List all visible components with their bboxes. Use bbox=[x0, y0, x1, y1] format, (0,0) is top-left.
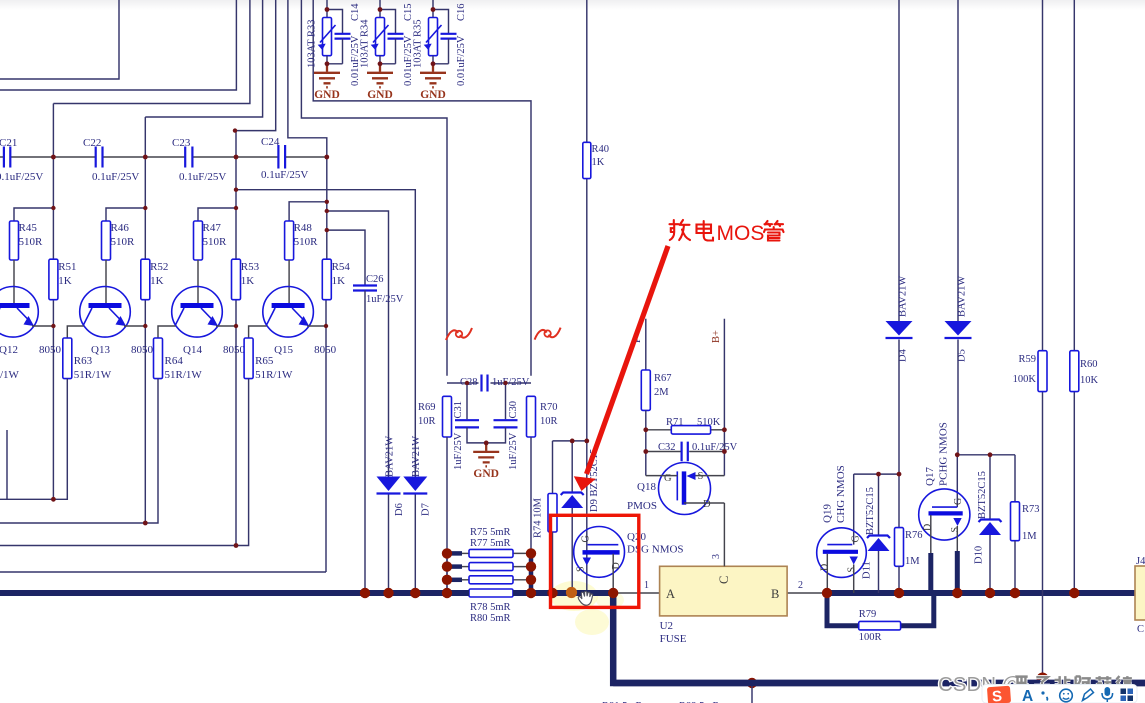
wire R34 cell bottom bbox=[380, 56, 396, 64]
resistor R51 1K bbox=[49, 259, 58, 300]
svg-text:1uF/25V: 1uF/25V bbox=[366, 294, 404, 305]
wire D6 vertical lower bbox=[388, 493, 390, 593]
svg-text:PCHG NMOS: PCHG NMOS bbox=[938, 422, 950, 486]
resistor R73 1M bbox=[1014, 455, 1016, 502]
wire R74 bottom bbox=[552, 532, 554, 593]
wire R35 cell bottom bbox=[433, 56, 449, 64]
wire Q17 gate node bbox=[957, 454, 1015, 456]
svg-text:C23: C23 bbox=[172, 137, 191, 149]
wire R35 cell top bbox=[433, 0, 449, 34]
svg-text:1K: 1K bbox=[592, 157, 605, 168]
svg-text:51R/1W: 51R/1W bbox=[74, 369, 112, 381]
wire fuse pin1 bbox=[613, 592, 659, 594]
resistor R67 2M bbox=[641, 370, 650, 410]
wire C31 hang bbox=[466, 383, 468, 419]
svg-text:D6: D6 bbox=[394, 503, 405, 516]
svg-text:1K: 1K bbox=[241, 275, 255, 287]
resistor R63 51R/1W bbox=[63, 338, 72, 379]
wire Q17 drain thick bbox=[930, 515, 932, 553]
svg-text:S: S bbox=[950, 527, 961, 533]
wire Q15 collector stub bbox=[249, 326, 267, 338]
svg-text:Q18: Q18 bbox=[637, 481, 656, 493]
bus B- main horizontal bbox=[0, 590, 469, 596]
svg-text:103AT R34: 103AT R34 bbox=[360, 19, 371, 68]
wire B+ net bbox=[723, 319, 725, 476]
ground GND under R34 bbox=[379, 64, 381, 72]
wire Q14 collector stub bbox=[158, 326, 176, 338]
wire fuse pin2 bbox=[787, 592, 827, 594]
svg-text:R52: R52 bbox=[150, 261, 168, 273]
diode D4 BAV21W bbox=[886, 321, 913, 336]
capacitor C30 1uF/25V bbox=[494, 420, 518, 427]
wire D4 to Q19 gate node bbox=[898, 340, 900, 475]
diode D11 BZT52C15 zener bbox=[878, 474, 880, 536]
svg-text:R65: R65 bbox=[255, 355, 274, 367]
svg-text:Q12: Q12 bbox=[0, 344, 18, 356]
svg-text:BZT52C15: BZT52C15 bbox=[865, 487, 876, 535]
svg-text:/1W: /1W bbox=[0, 369, 20, 381]
svg-text:100R: 100R bbox=[859, 632, 882, 643]
svg-text:C21: C21 bbox=[0, 137, 17, 149]
svg-text:R47: R47 bbox=[203, 222, 222, 234]
svg-text:R80 5mR: R80 5mR bbox=[470, 613, 511, 624]
wire Q19 source bbox=[853, 565, 855, 594]
svg-text:U2: U2 bbox=[660, 620, 673, 632]
wire Q20 source net bbox=[586, 441, 588, 593]
svg-text:1K: 1K bbox=[332, 275, 346, 287]
highlight glow near cursor bbox=[550, 581, 598, 611]
junction dots sense block bbox=[442, 548, 452, 558]
capacitor C14 0.01uF/25V bbox=[335, 34, 351, 39]
svg-text:510K: 510K bbox=[697, 417, 721, 428]
red annotation callout line and arrow bbox=[587, 246, 669, 474]
svg-text:GND: GND bbox=[473, 468, 499, 480]
svg-text:10R: 10R bbox=[418, 416, 436, 427]
svg-text:C31: C31 bbox=[453, 401, 464, 419]
svg-text:R59: R59 bbox=[1018, 354, 1036, 365]
svg-text:R71: R71 bbox=[666, 417, 684, 428]
junction dots R34 cell bbox=[378, 7, 383, 12]
wire drop below bottom bus bbox=[751, 686, 753, 703]
wire stair L6 to cell4 chain bbox=[288, 0, 327, 157]
capacitor C22 bbox=[96, 147, 103, 168]
resistor R54 1K bbox=[322, 259, 331, 300]
svg-text:A: A bbox=[1022, 688, 1033, 703]
capacitor C16 0.01uF/25V bbox=[441, 34, 457, 39]
wire R71 row bbox=[646, 429, 672, 431]
wire sense right riser bus bbox=[529, 553, 534, 593]
svg-text:8050: 8050 bbox=[39, 344, 62, 356]
ground GND under R35 bbox=[432, 64, 434, 72]
wire D5 net vertical bbox=[957, 0, 959, 321]
svg-text:GND: GND bbox=[420, 89, 446, 101]
svg-text:C22: C22 bbox=[83, 137, 101, 149]
transistor Q12 8050 bbox=[0, 287, 38, 338]
resistor R69 10R bbox=[443, 396, 452, 437]
svg-text:0.1uF/25V: 0.1uF/25V bbox=[0, 171, 43, 183]
sense resistor row 2 5mR bbox=[447, 564, 462, 569]
diode D10 BZT52C15 zener bbox=[989, 455, 991, 520]
connector J1 right edge bbox=[1135, 566, 1145, 620]
resistor R52 1K bbox=[141, 259, 150, 300]
svg-text:R70: R70 bbox=[540, 402, 558, 413]
ground GND under R33 bbox=[326, 64, 328, 72]
svg-text:3: 3 bbox=[711, 554, 722, 559]
svg-text:GND: GND bbox=[314, 89, 340, 101]
wire capacitor row bbox=[0, 156, 4, 158]
wire chain cell1 vertical bbox=[52, 104, 54, 260]
svg-text:D10: D10 bbox=[974, 546, 985, 564]
transistor Q18 PMOS bbox=[659, 463, 711, 515]
wire thermistor block border-bottom to R70 bbox=[313, 0, 531, 376]
resistor R40 1K bbox=[583, 142, 591, 178]
junction dots gate nodes bbox=[876, 472, 881, 477]
svg-text:1uF/25V: 1uF/25V bbox=[453, 432, 464, 470]
svg-text:G: G bbox=[664, 473, 672, 484]
svg-text:R73: R73 bbox=[1022, 504, 1040, 515]
wire R33 cell bottom bbox=[327, 56, 343, 64]
wire C32 row bbox=[646, 451, 682, 453]
svg-text:BAV21W: BAV21W bbox=[957, 276, 968, 317]
resistor R60 10K bbox=[1070, 351, 1079, 392]
svg-text:D: D bbox=[820, 564, 831, 571]
wire emitter return L3 bbox=[0, 379, 249, 546]
diode D7 BAV21W bbox=[403, 477, 427, 492]
wire chain cell3 vertical bbox=[235, 131, 237, 260]
thermistor R35 103AT bbox=[429, 18, 438, 56]
svg-text:R46: R46 bbox=[111, 222, 130, 234]
wire stair L2 bbox=[0, 0, 236, 90]
svg-text:1uF/25V: 1uF/25V bbox=[492, 377, 530, 388]
svg-text:1M: 1M bbox=[905, 556, 920, 567]
wire R47 to Q14 base bbox=[197, 260, 199, 304]
svg-text:S: S bbox=[698, 471, 704, 482]
svg-text:R63: R63 bbox=[74, 355, 93, 367]
transistor Q13 8050 bbox=[80, 287, 131, 338]
wire tie R45 top bbox=[14, 208, 53, 221]
junction dots main bus bbox=[360, 588, 370, 598]
wire D7 feed bbox=[236, 190, 415, 477]
svg-text:R60: R60 bbox=[1080, 359, 1098, 370]
svg-text:1uF/25V: 1uF/25V bbox=[508, 432, 519, 470]
wire R33 cell top bbox=[327, 0, 343, 34]
svg-text:Q19: Q19 bbox=[822, 504, 834, 523]
junction dots R33 cell bbox=[325, 7, 330, 12]
svg-text:0.01uF/25V: 0.01uF/25V bbox=[456, 35, 467, 86]
capacitor C15 0.01uF/25V bbox=[388, 34, 404, 39]
bus right section bbox=[827, 590, 1135, 596]
svg-text:Q20: Q20 bbox=[627, 531, 646, 543]
svg-text:R76: R76 bbox=[905, 530, 923, 541]
svg-text:J4: J4 bbox=[1136, 556, 1145, 567]
wire C26 feed bbox=[327, 230, 365, 285]
wire Q13 collector stub bbox=[67, 326, 83, 338]
svg-text:R54: R54 bbox=[332, 261, 351, 273]
watermark toolbar bbox=[982, 685, 1137, 703]
svg-text:510R: 510R bbox=[203, 236, 228, 248]
thermistor R33 103AT bbox=[323, 18, 332, 56]
svg-text:Q14: Q14 bbox=[183, 344, 202, 356]
red highlight rectangle around Q20 bbox=[551, 515, 639, 607]
wire tie R47 top bbox=[198, 208, 236, 221]
svg-text:R45: R45 bbox=[19, 222, 38, 234]
svg-text:R53: R53 bbox=[241, 261, 260, 273]
sense resistor row 3 5mR bbox=[447, 578, 462, 583]
wire Q15 emitter stub bbox=[307, 325, 327, 327]
wire R60 net vertical bbox=[1073, 0, 1075, 351]
svg-text:0.1uF/25V: 0.1uF/25V bbox=[692, 442, 738, 453]
sense resistor row 1 5mR bbox=[447, 551, 462, 556]
wire tie R48 top bbox=[289, 202, 327, 221]
svg-text:R74 10M: R74 10M bbox=[533, 497, 544, 538]
svg-text:C15: C15 bbox=[403, 3, 414, 21]
svg-text:10K: 10K bbox=[1080, 375, 1099, 386]
wire R59 net vertical bbox=[1042, 0, 1044, 351]
wire R40 net vertical bbox=[586, 0, 588, 142]
diode D9 BZT52C15 zener bbox=[561, 493, 584, 496]
wire R46 to Q13 base bbox=[105, 260, 107, 304]
wire Q19 drain bbox=[826, 554, 828, 593]
wire stair L7 to R69 bbox=[301, 0, 447, 376]
svg-text:BZT52C15: BZT52C15 bbox=[977, 471, 988, 519]
wire Q18 drain to fuse bbox=[684, 502, 724, 504]
svg-text:2: 2 bbox=[798, 580, 803, 591]
svg-text:8050: 8050 bbox=[131, 344, 154, 356]
resistor R65 51R/1W bbox=[244, 338, 253, 379]
svg-text:C: C bbox=[1137, 624, 1144, 635]
wire Q13 emitter stub bbox=[124, 325, 145, 327]
svg-text:R51: R51 bbox=[58, 261, 76, 273]
no-ERC marker right bbox=[535, 328, 561, 340]
wire stair L3 bbox=[53, 0, 250, 104]
svg-text:2M: 2M bbox=[654, 387, 669, 398]
svg-text:103AT R35: 103AT R35 bbox=[413, 19, 424, 68]
red annotation text fang-dian MOS guan bbox=[670, 220, 714, 241]
resistor R45 510R bbox=[10, 221, 19, 260]
sense resistor row 4 5mR bbox=[469, 589, 513, 597]
svg-text:C26: C26 bbox=[366, 274, 384, 285]
svg-text:BAV21W: BAV21W bbox=[898, 276, 909, 317]
svg-text:C: C bbox=[717, 576, 731, 584]
svg-text:R79: R79 bbox=[859, 609, 877, 620]
svg-text:C30: C30 bbox=[508, 401, 519, 419]
transistor Q20 DSG NMOS bbox=[574, 527, 625, 578]
wire Q19 gate node bbox=[854, 473, 899, 475]
transistor Q14 8050 bbox=[172, 287, 223, 338]
capacitor C24 bbox=[278, 145, 285, 169]
diode D5 BAV21W bbox=[945, 321, 972, 336]
svg-text:R75 5mR: R75 5mR bbox=[470, 527, 511, 538]
svg-text:510R: 510R bbox=[294, 236, 319, 248]
wire P+ net bbox=[645, 319, 647, 370]
wire C26 bottom bbox=[364, 291, 366, 594]
svg-text:S: S bbox=[576, 566, 587, 572]
wire Q18 gate bbox=[646, 475, 678, 477]
svg-text:8050: 8050 bbox=[223, 344, 246, 356]
svg-text:0.1uF/25V: 0.1uF/25V bbox=[261, 169, 308, 181]
resistor R47 510R bbox=[194, 221, 203, 260]
svg-text:S: S bbox=[847, 567, 858, 573]
component U2 FUSE bbox=[660, 566, 788, 616]
thermistor R34 103AT bbox=[376, 18, 385, 56]
svg-text:CHG NMOS: CHG NMOS bbox=[835, 465, 847, 523]
svg-text:Q13: Q13 bbox=[91, 344, 110, 356]
wire chain cell4 vertical bbox=[326, 157, 328, 259]
svg-text:C24: C24 bbox=[261, 136, 280, 148]
diode D6 BAV21W bbox=[377, 477, 401, 492]
resistor R79 100R bbox=[859, 621, 901, 630]
resistor R70 10R bbox=[527, 396, 536, 437]
capacitor C31 1uF/25V bbox=[455, 420, 479, 427]
wire Q12 emitter stub bbox=[32, 325, 53, 327]
wire R70 bottom to sense bbox=[530, 437, 532, 553]
svg-text:DSG NMOS: DSG NMOS bbox=[627, 544, 684, 556]
resistor R76 1M bbox=[898, 474, 900, 527]
junction dots cap row and chains bbox=[51, 155, 56, 160]
wire emitter return L2 bbox=[0, 379, 158, 523]
svg-text:PMOS: PMOS bbox=[627, 500, 657, 512]
resistor R64 51R/1W bbox=[154, 338, 163, 379]
svg-text:D: D bbox=[923, 524, 934, 531]
svg-text:1K: 1K bbox=[58, 275, 71, 287]
svg-text:A: A bbox=[666, 587, 675, 601]
svg-text:510R: 510R bbox=[19, 236, 44, 248]
svg-text:R67: R67 bbox=[654, 373, 672, 384]
svg-text:Q17: Q17 bbox=[924, 467, 936, 486]
svg-text:8050: 8050 bbox=[314, 344, 337, 356]
mouse hand cursor bbox=[578, 591, 593, 605]
svg-text:C14: C14 bbox=[350, 3, 361, 21]
svg-text:51R/1W: 51R/1W bbox=[165, 369, 203, 381]
capacitor C21 bbox=[4, 147, 10, 168]
wire stair L1 top-left bbox=[0, 0, 119, 79]
svg-text:R48: R48 bbox=[294, 222, 313, 234]
wire fuse pin3 bbox=[723, 503, 725, 566]
bus corner down bbox=[613, 590, 1145, 683]
svg-text:S: S bbox=[992, 688, 1003, 703]
wire R69 bottom to sense bbox=[446, 437, 448, 593]
svg-text:1K: 1K bbox=[150, 275, 164, 287]
svg-text:GND: GND bbox=[367, 89, 393, 101]
wire R34 cell top bbox=[380, 0, 396, 34]
wire C28 bridge bbox=[447, 382, 479, 384]
capacitor C28 1uF/25V bbox=[482, 375, 488, 392]
svg-text:D11: D11 bbox=[862, 561, 873, 579]
svg-text:FUSE: FUSE bbox=[660, 633, 687, 645]
svg-text:G: G bbox=[851, 535, 862, 542]
svg-text:C32: C32 bbox=[658, 442, 676, 453]
wire tie R46 top bbox=[106, 208, 145, 221]
resistor R46 510R bbox=[102, 221, 111, 260]
resistor R53 1K bbox=[232, 259, 241, 300]
wire stair L5 bbox=[235, 0, 276, 131]
wire R45 to Q12 base bbox=[13, 260, 15, 304]
wire D7 vertical lower bbox=[414, 493, 416, 593]
svg-text:BAV21W: BAV21W bbox=[384, 436, 395, 477]
junction dots Q18 block bbox=[643, 427, 648, 432]
svg-text:103AT R33: 103AT R33 bbox=[307, 19, 318, 68]
wire D4 net vertical bbox=[898, 0, 900, 321]
capacitor C23 bbox=[185, 147, 192, 168]
wire stair L4 bbox=[145, 0, 262, 117]
wire C31 C30 to ground bbox=[467, 427, 506, 443]
svg-text:R40: R40 bbox=[592, 144, 610, 155]
capacitor C26 1uF/25V bbox=[353, 286, 377, 291]
wire sense left riser bbox=[446, 553, 448, 593]
no-ERC marker left bbox=[446, 328, 472, 340]
svg-text:B: B bbox=[771, 587, 779, 601]
wire emitter return L4 bbox=[0, 571, 326, 573]
wire D5 to Q17 gate node bbox=[957, 340, 959, 455]
resistor R59 100K bbox=[1038, 351, 1047, 392]
svg-text:MOS: MOS bbox=[717, 222, 765, 245]
svg-text:510R: 510R bbox=[111, 236, 136, 248]
resistor R74 10M bbox=[548, 494, 557, 533]
svg-text:R64: R64 bbox=[165, 355, 184, 367]
svg-text:G: G bbox=[953, 498, 964, 505]
svg-text:Q15: Q15 bbox=[274, 344, 293, 356]
wire D6 feed bbox=[327, 211, 389, 477]
svg-text:BAV21W: BAV21W bbox=[411, 436, 422, 477]
wire R48 to Q15 base bbox=[288, 260, 290, 304]
wire C30 hang bbox=[505, 383, 507, 419]
svg-text:10R: 10R bbox=[540, 416, 558, 427]
junction dots R35 cell bbox=[431, 7, 436, 12]
svg-text:51R/1W: 51R/1W bbox=[255, 369, 293, 381]
wire R67 to gate node bbox=[645, 410, 647, 475]
bus R79 loop bbox=[827, 593, 934, 626]
svg-text:D: D bbox=[703, 499, 711, 510]
resistor R71 510K bbox=[671, 426, 710, 435]
transistor Q17 PCHG NMOS bbox=[919, 489, 970, 540]
wire node to R74 and D9 bbox=[553, 441, 587, 494]
svg-text:D7: D7 bbox=[421, 503, 432, 516]
wire emitter return L1 bbox=[0, 379, 67, 500]
svg-text:0.1uF/25V: 0.1uF/25V bbox=[92, 171, 139, 183]
svg-text:100K: 100K bbox=[1013, 374, 1037, 385]
wire Q18 source bbox=[696, 475, 725, 477]
wire chain cell2 vertical bbox=[144, 117, 146, 259]
svg-text:B+: B+ bbox=[711, 330, 722, 343]
wire Q20 drain bbox=[612, 554, 614, 593]
svg-text:R69: R69 bbox=[418, 402, 436, 413]
transistor Q19 CHG NMOS bbox=[817, 528, 867, 578]
resistor R48 510R bbox=[285, 221, 294, 260]
svg-text:G: G bbox=[581, 535, 592, 542]
capacitor C32 0.1uF/25V bbox=[682, 442, 688, 462]
wire Q14 emitter stub bbox=[216, 325, 236, 327]
junction dots bottom bus bbox=[747, 678, 757, 688]
svg-text:C16: C16 bbox=[456, 3, 467, 21]
transistor Q15 8050 bbox=[263, 287, 314, 338]
junction dot orange highlighted bbox=[566, 587, 577, 598]
svg-text:1: 1 bbox=[644, 580, 649, 591]
svg-text:0.1uF/25V: 0.1uF/25V bbox=[179, 171, 226, 183]
ground GND mid bbox=[485, 443, 487, 451]
svg-text:R77 5mR: R77 5mR bbox=[470, 538, 511, 549]
svg-text:R78 5mR: R78 5mR bbox=[470, 602, 511, 613]
svg-text:1M: 1M bbox=[1022, 531, 1037, 542]
wire stub left edge bbox=[6, 430, 8, 499]
wire Q17 source thick bbox=[956, 526, 958, 551]
